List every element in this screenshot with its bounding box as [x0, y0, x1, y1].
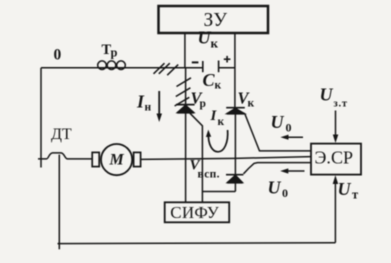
- wire Vvsp gate to ESR: [244, 163, 312, 174]
- svg-text:U: U: [268, 178, 282, 198]
- svg-text:U: U: [338, 179, 352, 199]
- svg-text:ДТ: ДТ: [51, 126, 72, 143]
- bottom feedback wire: [58, 242, 336, 245]
- commutation current Ik loop arrow: [208, 130, 227, 152]
- label Ik with loop arrow: [210, 108, 225, 128]
- wire junction to thyristor Vp anode: [185, 68, 187, 105]
- input Uzt arrow: [335, 111, 337, 136]
- charger unit ZU box: [159, 6, 269, 33]
- node 0 terminal label: [54, 47, 62, 64]
- feedback Ut arrow: [334, 183, 336, 243]
- svg-text:к: к: [211, 36, 219, 51]
- svg-text:0: 0: [282, 186, 288, 200]
- wire ZU left lead: [184, 33, 186, 68]
- svg-text:I: I: [210, 108, 218, 124]
- motor M: [101, 144, 132, 175]
- wire ZU right lead: [234, 33, 236, 108]
- label In with arrow: [136, 92, 152, 114]
- minus polarity mark: [192, 61, 199, 63]
- thyristor Vk: [226, 107, 245, 109]
- svg-text:к: к: [248, 98, 255, 110]
- wire Vp cathode down to SIFU: [185, 113, 187, 203]
- svg-text:р: р: [111, 46, 118, 60]
- thyristor Vvsp: [226, 174, 243, 176]
- hatch marks on top wire: [154, 63, 179, 75]
- signal U0 upper arrow: [284, 136, 303, 138]
- wire Vk cathode down: [234, 114, 236, 175]
- svg-text:н: н: [145, 102, 152, 114]
- comparison element ESR box: [311, 144, 361, 175]
- transformer Tr label: [102, 42, 118, 60]
- svg-text:0: 0: [286, 121, 292, 135]
- svg-text:M: M: [109, 151, 125, 168]
- svg-text:U: U: [271, 112, 285, 132]
- hatch marks on Vp branch: [175, 78, 191, 106]
- svg-text:0: 0: [54, 47, 62, 64]
- wire top horizontal from 0 to capacitor: [41, 67, 203, 69]
- label Ck: [203, 70, 222, 92]
- pulse control unit SIFU box: [165, 202, 230, 222]
- signal U0 lower arrow: [284, 170, 305, 172]
- wire Vvsp anode to SIFU node: [202, 191, 235, 193]
- wire DT tap down: [58, 155, 60, 250]
- main armature wire motor to ESR: [141, 157, 311, 160]
- wire diagonal branch to SIFU node: [190, 113, 202, 191]
- current sensor DT label: [51, 126, 72, 143]
- svg-text:т: т: [352, 188, 358, 202]
- current sensor DT hump: [38, 153, 92, 159]
- svg-text:к: к: [215, 80, 222, 92]
- label Uk: [198, 28, 219, 51]
- svg-text:Э.СР: Э.СР: [315, 148, 354, 168]
- svg-text:р: р: [200, 98, 206, 110]
- svg-text:СИФУ: СИФУ: [170, 203, 219, 222]
- capacitor Ck: [185, 67, 203, 69]
- svg-text:всп.: всп.: [198, 169, 220, 181]
- plus polarity mark: [224, 58, 231, 60]
- current In arrow: [158, 91, 160, 115]
- svg-text:к: к: [218, 116, 225, 128]
- svg-text:з.т: з.т: [334, 99, 348, 110]
- thyristor Vp: [176, 104, 195, 106]
- wire left rail: [40, 68, 42, 159]
- svg-text:U: U: [320, 85, 334, 105]
- wire Vk gate diagonal to ESR: [245, 114, 311, 151]
- svg-text:U: U: [198, 28, 212, 48]
- transformer Tr winding: [98, 61, 107, 70]
